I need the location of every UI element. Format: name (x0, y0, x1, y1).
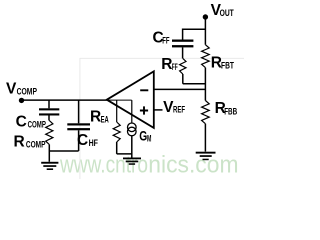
svg-text:REF: REF (173, 105, 186, 115)
svg-text:EA: EA (101, 115, 110, 125)
svg-text:M: M (147, 134, 151, 144)
svg-text:V: V (6, 81, 17, 98)
svg-text:FBT: FBT (221, 60, 234, 70)
svg-text:FF: FF (162, 36, 170, 46)
svg-text:R: R (14, 133, 25, 150)
svg-text:C: C (77, 132, 88, 149)
svg-text:www.cntro: www.cntro (59, 151, 148, 178)
svg-text:nics.com: nics.com (148, 151, 238, 178)
svg-text:COMP: COMP (26, 140, 46, 150)
svg-text:HF: HF (89, 138, 99, 148)
svg-text:OUT: OUT (220, 8, 235, 18)
svg-text:FF: FF (172, 62, 178, 72)
svg-text:R: R (90, 108, 101, 125)
svg-text:COMP: COMP (17, 86, 37, 96)
svg-text:FBB: FBB (224, 106, 237, 116)
svg-text:COMP: COMP (28, 119, 46, 129)
svg-text:C: C (16, 113, 27, 130)
